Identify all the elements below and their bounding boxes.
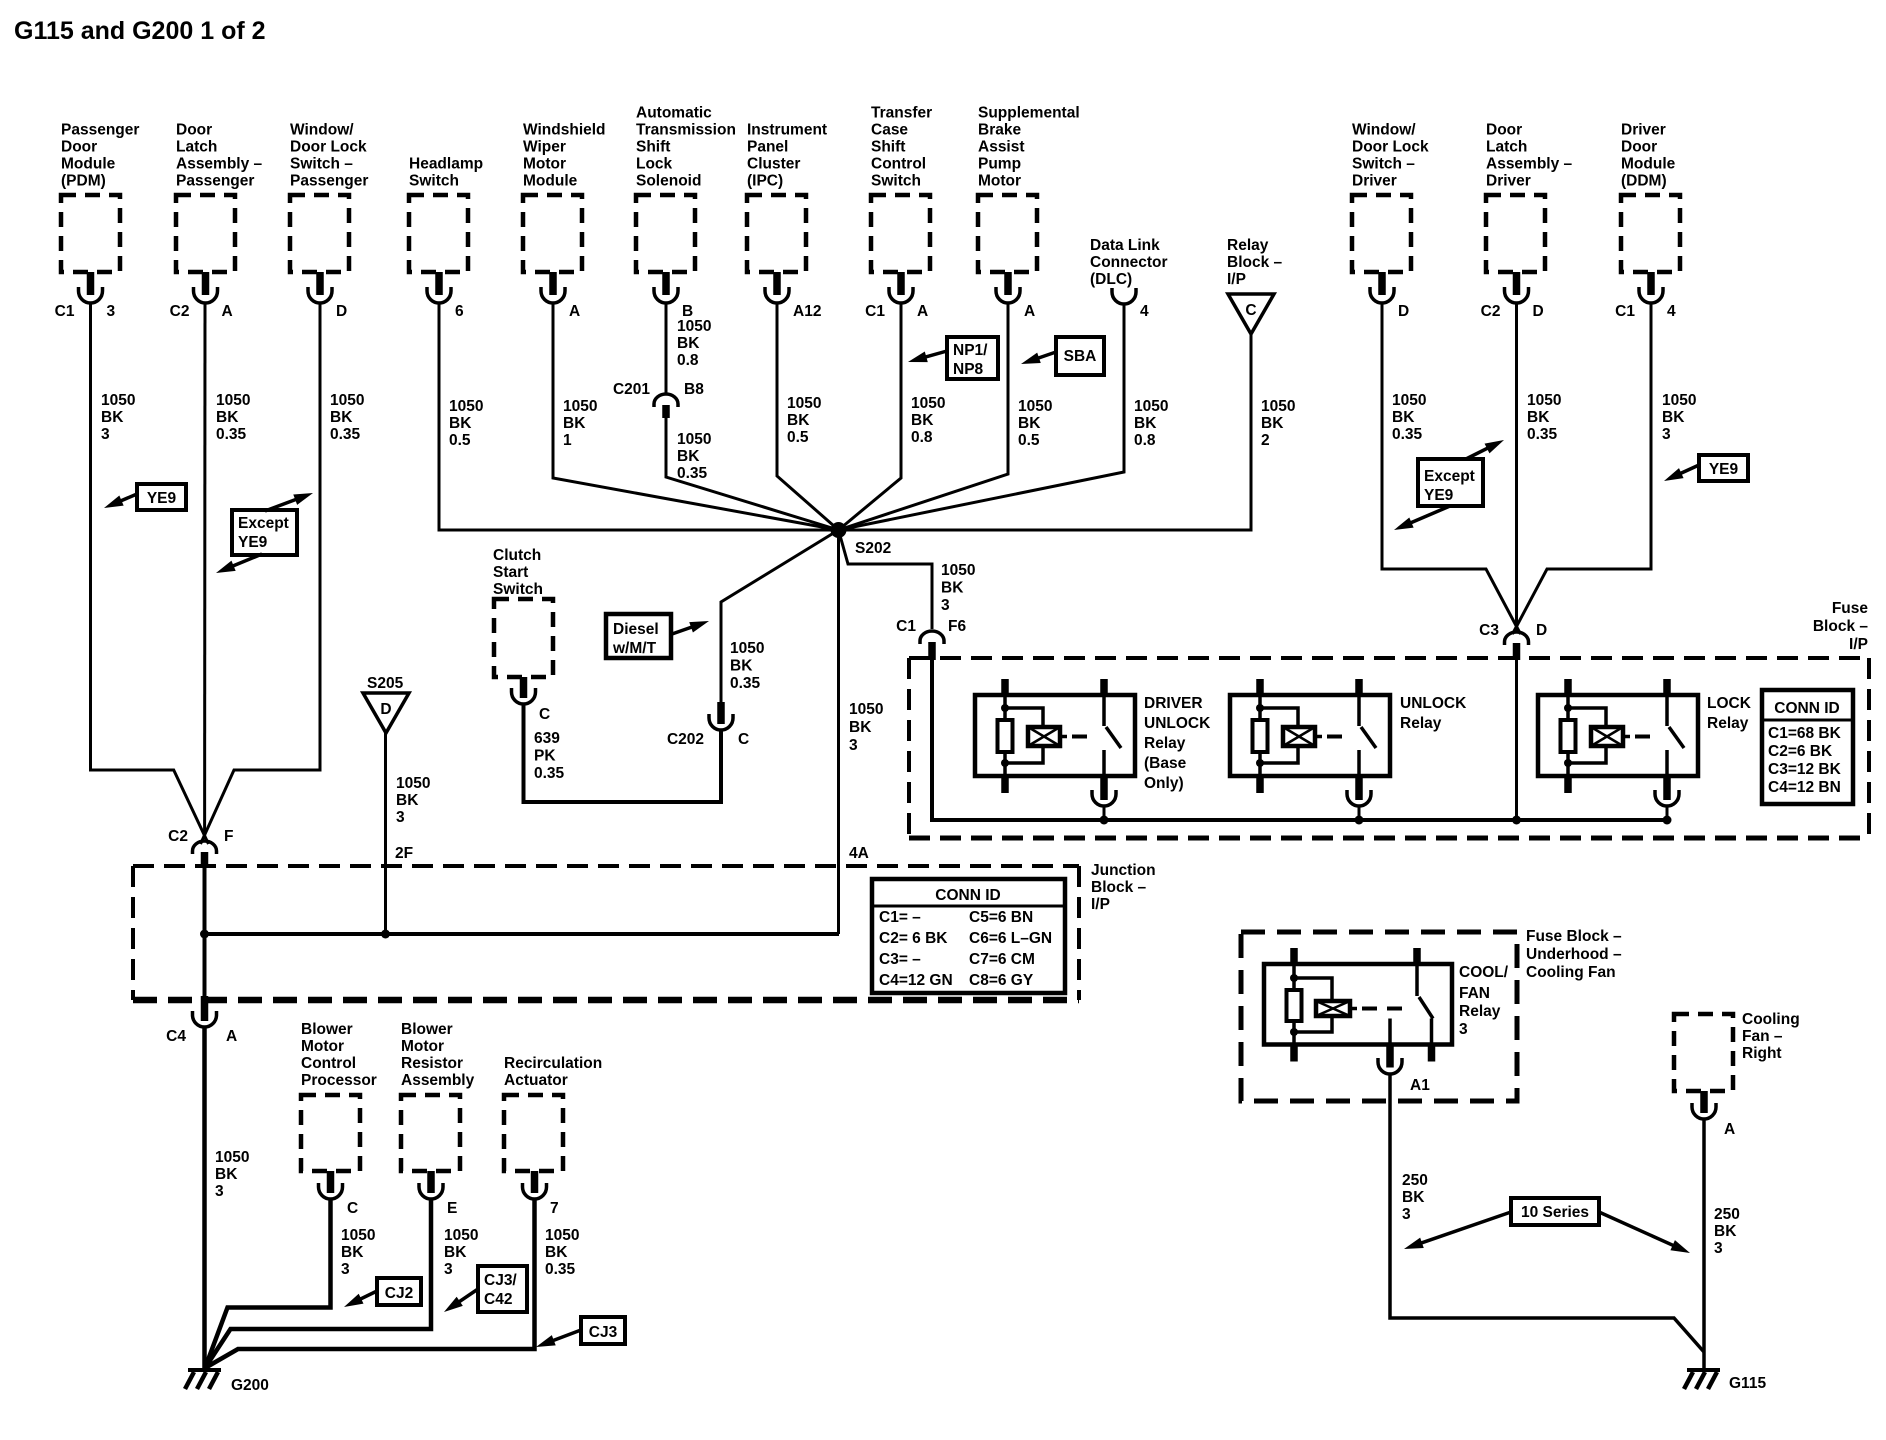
svg-text:Motor: Motor [978, 173, 1021, 190]
svg-text:10 Series: 10 Series [1521, 1204, 1589, 1221]
svg-text:BK: BK [216, 409, 239, 426]
svg-text:Automatic: Automatic [636, 105, 712, 122]
svg-text:C1: C1 [865, 303, 885, 320]
component Passenger Door Module (PDM) [55, 122, 140, 321]
label Junction Block - I/P [1091, 862, 1156, 913]
svg-text:C42: C42 [484, 1291, 512, 1308]
wire C202 to Clutch Start Switch pin C [524, 703, 722, 802]
wire C3/D to fuse block bus [1515, 660, 1518, 820]
svg-text:Driver: Driver [1621, 122, 1666, 139]
svg-text:(DDM): (DDM) [1621, 173, 1667, 190]
svg-text:Transmission: Transmission [636, 122, 736, 139]
svg-text:A12: A12 [793, 303, 821, 320]
svg-text:BK: BK [545, 1244, 568, 1261]
svg-text:Pump: Pump [978, 156, 1021, 173]
wire S202 to junction block (4A) [837, 537, 840, 934]
wire S202 to connector C202 [721, 530, 839, 704]
wire Blower Motor Control Processor pin C to ground G200 [205, 1199, 331, 1368]
svg-text:Blower: Blower [401, 1021, 453, 1038]
label Fuse Block - Underhood - Cooling Fan [1526, 928, 1622, 981]
svg-text:w/M/T: w/M/T [612, 640, 657, 657]
svg-text:SBA: SBA [1064, 348, 1097, 365]
svg-text:2: 2 [1261, 432, 1270, 449]
label YE9 with arrow to DDM wire [1662, 455, 1748, 486]
svg-text:BK: BK [341, 1244, 364, 1261]
svg-text:0.35: 0.35 [216, 426, 247, 443]
label 1050 BK 0.8 (solenoid wire) [677, 318, 711, 369]
svg-text:2F: 2F [395, 845, 413, 862]
svg-text:Passenger: Passenger [176, 173, 254, 190]
svg-text:1050: 1050 [444, 1227, 478, 1244]
svg-text:1050: 1050 [396, 775, 430, 792]
svg-text:Module: Module [61, 156, 116, 173]
svg-text:CJ3/: CJ3/ [484, 1272, 517, 1289]
svg-text:PK: PK [534, 748, 556, 765]
svg-text:C1=68 BK: C1=68 BK [1768, 725, 1842, 742]
wire DDM pin 4 to connector C3/D [1513, 303, 1652, 634]
svg-text:Door: Door [1486, 122, 1522, 139]
svg-text:1050: 1050 [677, 431, 711, 448]
label Diesel w/M/T with arrow [606, 614, 711, 658]
label SBA with arrow to supplemental brake wire [1019, 337, 1104, 375]
svg-text:I/P: I/P [1227, 271, 1246, 288]
svg-text:Relay: Relay [1227, 237, 1269, 254]
svg-text:Switch –: Switch – [1352, 156, 1415, 173]
splice connector S205 (triangle D) [363, 675, 409, 733]
wire Window/Door Lock Driver pin D to connector C3/D [1382, 303, 1521, 634]
svg-text:3: 3 [1459, 1021, 1468, 1038]
wire PDM pin 3 to connector C2/F [91, 303, 209, 844]
svg-text:3: 3 [849, 737, 858, 754]
svg-text:0.5: 0.5 [449, 432, 471, 449]
fuse block I/P dashed outline [909, 658, 1869, 838]
svg-text:BK: BK [677, 448, 700, 465]
wire Window/Door Lock Passenger pin D to connector C2/F [201, 303, 321, 844]
label 250 BK 3 (cooling fan wire) [1714, 1206, 1740, 1257]
svg-text:Block –: Block – [1227, 254, 1283, 271]
label 1050 BK 3 (blower resistor wire) [444, 1227, 478, 1278]
svg-text:Connector: Connector [1090, 254, 1168, 271]
svg-text:YE9: YE9 [1709, 461, 1739, 478]
svg-text:FAN: FAN [1459, 985, 1490, 1002]
svg-text:D: D [1398, 303, 1409, 320]
svg-text:Switch –: Switch – [290, 156, 353, 173]
wire Shift Lock Solenoid pin B to connector C201 [665, 303, 668, 394]
svg-text:Processor: Processor [301, 1072, 377, 1089]
svg-text:BK: BK [911, 412, 934, 429]
svg-text:C1: C1 [896, 618, 916, 635]
label 1050 BK 0.35 (below C201) [677, 431, 711, 482]
wire Door Latch Passenger pin A to connector C2/F [203, 303, 206, 838]
svg-text:Assembly: Assembly [401, 1072, 475, 1089]
svg-text:BK: BK [563, 415, 586, 432]
component Relay Block - I/P [1227, 237, 1283, 334]
svg-text:YE9: YE9 [147, 490, 177, 507]
svg-text:S205: S205 [367, 675, 404, 692]
svg-text:A: A [1724, 1121, 1735, 1138]
svg-text:A: A [226, 1028, 237, 1045]
relay UNLOCK [1230, 679, 1467, 825]
svg-text:BK: BK [1018, 415, 1041, 432]
svg-text:BK: BK [1662, 409, 1685, 426]
svg-text:Switch: Switch [493, 581, 543, 598]
svg-text:BK: BK [849, 719, 872, 736]
svg-text:0.35: 0.35 [534, 765, 565, 782]
svg-text:1050: 1050 [545, 1227, 579, 1244]
relay LOCK [1538, 679, 1752, 825]
svg-text:Window/: Window/ [290, 122, 354, 139]
svg-text:BK: BK [787, 412, 810, 429]
svg-text:CJ2: CJ2 [385, 1285, 413, 1302]
svg-text:Switch: Switch [871, 173, 921, 190]
svg-text:LOCK: LOCK [1707, 695, 1752, 712]
svg-text:BK: BK [101, 409, 124, 426]
svg-text:3: 3 [107, 303, 116, 320]
svg-text:1050: 1050 [911, 395, 945, 412]
svg-text:Door: Door [176, 122, 212, 139]
svg-text:C7=6 CM: C7=6 CM [969, 951, 1035, 968]
component Cooling Fan - Right [1674, 1011, 1800, 1138]
svg-text:BK: BK [396, 792, 419, 809]
svg-text:Window/: Window/ [1352, 122, 1416, 139]
svg-text:CONN ID: CONN ID [1774, 700, 1839, 717]
svg-text:250: 250 [1714, 1206, 1740, 1223]
svg-text:I/P: I/P [1849, 636, 1868, 653]
svg-text:UNLOCK: UNLOCK [1400, 695, 1467, 712]
svg-text:1050: 1050 [787, 395, 821, 412]
ground G115 [1684, 1370, 1766, 1392]
svg-text:Recirculation: Recirculation [504, 1055, 602, 1072]
svg-text:C1: C1 [55, 303, 75, 320]
wire DLC pin 4 to splice S202 [839, 305, 1125, 530]
svg-text:Passenger: Passenger [61, 122, 139, 139]
conn id table (junction block) [872, 879, 1065, 993]
label 1050 BK 1 (wiper wire) [563, 398, 597, 449]
svg-text:A: A [222, 303, 233, 320]
label 10 Series with arrows [1402, 1198, 1692, 1258]
svg-text:Assembly –: Assembly – [176, 156, 263, 173]
conn id table (fuse block) [1762, 690, 1853, 804]
label 1050 BK 0.35 (window/door lock driver wire) [1392, 392, 1426, 443]
component Automatic Transmission Shift Lock Solenoid [636, 105, 736, 321]
svg-text:1050: 1050 [1392, 392, 1426, 409]
label Except YE9 with arrows (driver side) [1392, 435, 1507, 535]
svg-text:A1: A1 [1410, 1077, 1430, 1094]
svg-text:Door Lock: Door Lock [1352, 139, 1429, 156]
label YE9 with arrow to PDM wire [102, 484, 186, 513]
label 1050 BK 3 (ground wire) [215, 1149, 249, 1200]
svg-text:Door: Door [1621, 139, 1657, 156]
svg-text:I/P: I/P [1091, 896, 1110, 913]
svg-text:Driver: Driver [1352, 173, 1397, 190]
svg-text:BK: BK [1714, 1223, 1737, 1240]
wire Blower Motor Resistor pin E to ground G200 [205, 1199, 431, 1368]
svg-text:Block –: Block – [1091, 879, 1147, 896]
svg-text:Passenger: Passenger [290, 173, 368, 190]
label 1050 BK 0.35 (recirculation wire) [545, 1227, 579, 1278]
svg-text:Actuator: Actuator [504, 1072, 568, 1089]
connector C201 / B8 [613, 381, 704, 418]
component Driver Door Module (DDM) [1615, 122, 1680, 321]
component Window/Door Lock Switch - Driver [1352, 122, 1429, 321]
svg-text:3: 3 [941, 597, 950, 614]
svg-text:(IPC): (IPC) [747, 173, 783, 190]
label 1050 BK 0.35 (door latch driver wire) [1527, 392, 1561, 443]
svg-text:C1= –: C1= – [879, 909, 921, 926]
svg-text:Cooling: Cooling [1742, 1011, 1800, 1028]
svg-text:6: 6 [455, 303, 464, 320]
svg-text:Data Link: Data Link [1090, 237, 1160, 254]
svg-text:DRIVER: DRIVER [1144, 695, 1203, 712]
svg-text:C: C [347, 1200, 358, 1217]
svg-text:Latch: Latch [176, 139, 217, 156]
svg-text:BK: BK [730, 658, 753, 675]
svg-text:Diesel: Diesel [613, 621, 659, 638]
svg-text:3: 3 [101, 426, 110, 443]
svg-text:0.35: 0.35 [330, 426, 361, 443]
wire Headlamp Switch pin 6 to splice S202 [439, 303, 839, 530]
svg-text:Except: Except [1424, 468, 1475, 485]
svg-text:G200: G200 [231, 1377, 269, 1394]
svg-text:Relay: Relay [1400, 715, 1442, 732]
svg-text:C2: C2 [1481, 303, 1501, 320]
label 1050 BK 3 (DDM wire) [1662, 392, 1696, 443]
svg-text:Control: Control [301, 1055, 356, 1072]
wire Relay Block I/P to splice S202 [839, 334, 1252, 530]
wire C201 B8 to splice S202 [666, 418, 839, 530]
junction block I/P dashed outline [133, 866, 1079, 1000]
svg-text:Motor: Motor [301, 1038, 344, 1055]
svg-text:C: C [738, 731, 749, 748]
node fuse bus / C3 wire [1512, 816, 1521, 825]
svg-text:1050: 1050 [1134, 398, 1168, 415]
svg-text:F6: F6 [948, 618, 966, 635]
svg-text:CONN ID: CONN ID [935, 887, 1000, 904]
svg-text:0.5: 0.5 [787, 429, 809, 446]
svg-text:639: 639 [534, 730, 560, 747]
svg-text:Assembly –: Assembly – [1486, 156, 1573, 173]
component Recirculation Actuator [504, 1055, 602, 1217]
svg-text:Clutch: Clutch [493, 547, 541, 564]
svg-text:Motor: Motor [401, 1038, 444, 1055]
svg-text:1050: 1050 [563, 398, 597, 415]
svg-text:1050: 1050 [215, 1149, 249, 1166]
svg-text:1: 1 [563, 432, 572, 449]
wire Supplemental Brake pin A to splice S202 [839, 303, 1009, 530]
component Blower Motor Resistor Assembly [401, 1021, 475, 1217]
svg-text:Motor: Motor [523, 156, 566, 173]
svg-text:BK: BK [1134, 415, 1157, 432]
label 1050 BK 0.35 (window/door lock passenger wire) [330, 392, 364, 443]
svg-text:BK: BK [449, 415, 472, 432]
svg-text:3: 3 [341, 1261, 350, 1278]
ground G200 [185, 1370, 269, 1394]
connector C3/D [1479, 622, 1547, 660]
svg-text:Assist: Assist [978, 139, 1025, 156]
svg-text:1050: 1050 [341, 1227, 375, 1244]
wire Windshield Wiper pin A to splice S202 [553, 303, 839, 530]
label 1050 BK 0.35 (door latch passenger wire) [216, 392, 250, 443]
svg-text:4: 4 [1667, 303, 1676, 320]
connector C2/F [168, 828, 233, 866]
svg-text:Module: Module [1621, 156, 1676, 173]
svg-text:Driver: Driver [1486, 173, 1531, 190]
svg-text:NP1/: NP1/ [953, 342, 988, 359]
svg-text:BK: BK [1261, 415, 1284, 432]
svg-text:3: 3 [1662, 426, 1671, 443]
label 1050 BK 3 (C1/F6 wire) [941, 562, 975, 614]
svg-text:(PDM): (PDM) [61, 173, 106, 190]
label 1050 BK 3 (4A wire) [849, 701, 883, 754]
label 639 PK 0.35 (clutch switch wire) [534, 730, 565, 782]
svg-text:NP8: NP8 [953, 361, 984, 378]
svg-text:Supplemental: Supplemental [978, 105, 1080, 122]
svg-text:Start: Start [493, 564, 528, 581]
svg-text:A: A [1024, 303, 1035, 320]
svg-text:1050: 1050 [330, 392, 364, 409]
label CJ3 with arrow [534, 1317, 625, 1352]
label 4A [849, 845, 869, 862]
label 1050 BK 0.5 (IPC wire) [787, 395, 821, 446]
label 1050 BK 0.5 (supplemental brake wire) [1018, 398, 1052, 449]
svg-text:Right: Right [1742, 1045, 1782, 1062]
splice S202 [831, 522, 892, 557]
svg-text:G115: G115 [1729, 1375, 1766, 1392]
fuse block underhood dashed outline [1241, 932, 1517, 1101]
svg-text:BK: BK [330, 409, 353, 426]
svg-text:C4=12 BN: C4=12 BN [1768, 779, 1841, 796]
svg-text:Fuse: Fuse [1832, 600, 1869, 617]
svg-text:Cooling Fan: Cooling Fan [1526, 964, 1616, 981]
svg-text:Block –: Block – [1813, 618, 1869, 635]
svg-text:YE9: YE9 [238, 534, 268, 551]
wire Cooling Fan pin A to ground G115 [1702, 1119, 1706, 1369]
wire C2/F through junction block to C4/A [203, 866, 207, 996]
label CJ3/C42 with arrow [441, 1266, 527, 1317]
label 1050 BK 3 (blower control wire) [341, 1227, 375, 1278]
svg-text:Cluster: Cluster [747, 156, 800, 173]
svg-text:3: 3 [1714, 1240, 1723, 1257]
label A1 [1410, 1077, 1430, 1094]
svg-text:250: 250 [1402, 1172, 1428, 1189]
svg-text:0.8: 0.8 [677, 352, 699, 369]
svg-text:Latch: Latch [1486, 139, 1527, 156]
svg-text:C2=6 BK: C2=6 BK [1768, 743, 1833, 760]
svg-text:Solenoid: Solenoid [636, 173, 701, 190]
svg-text:C2: C2 [168, 828, 188, 845]
svg-text:Resistor: Resistor [401, 1055, 463, 1072]
svg-text:C4: C4 [166, 1028, 186, 1045]
label 2F [395, 845, 413, 862]
svg-text:Wiper: Wiper [523, 139, 566, 156]
svg-text:D: D [1536, 622, 1547, 639]
svg-text:Shift: Shift [636, 139, 670, 156]
label 1050 BK 3 (PDM wire) [101, 392, 135, 443]
svg-text:Panel: Panel [747, 139, 788, 156]
svg-text:1050: 1050 [1527, 392, 1561, 409]
svg-text:BK: BK [941, 580, 964, 597]
component Window/Door Lock Switch - Passenger [290, 122, 368, 321]
svg-text:D: D [1533, 303, 1544, 320]
connector C4/A [166, 996, 237, 1045]
svg-text:C3= –: C3= – [879, 951, 921, 968]
svg-text:1050: 1050 [1018, 398, 1052, 415]
title G115 and G200 1 of 2 [14, 17, 266, 45]
wire S202 to connector C1/F6 [839, 530, 933, 629]
svg-text:YE9: YE9 [1424, 487, 1454, 504]
svg-text:Transfer: Transfer [871, 105, 932, 122]
svg-text:C3: C3 [1479, 622, 1499, 639]
svg-text:0.35: 0.35 [545, 1261, 576, 1278]
connector C1/F6 [896, 618, 966, 660]
component Door Latch Assembly - Passenger [170, 122, 263, 321]
svg-text:CJ3: CJ3 [589, 1324, 618, 1341]
svg-text:3: 3 [444, 1261, 453, 1278]
svg-text:Except: Except [238, 515, 289, 532]
svg-text:D: D [380, 701, 391, 718]
wire C4/A to ground G200 [202, 1027, 207, 1369]
component Supplemental Brake Assist Pump Motor [978, 105, 1080, 321]
svg-text:3: 3 [396, 809, 405, 826]
svg-text:Fuse Block –: Fuse Block – [1526, 928, 1622, 945]
wire S205 to junction block bus (2F) [384, 733, 387, 934]
svg-text:1050: 1050 [449, 398, 483, 415]
component Transfer Case Shift Control Switch [865, 105, 932, 321]
wire Transfer Case pin A to splice S202 [839, 303, 902, 530]
label 1050 BK 3 (S205 wire) [396, 775, 430, 826]
svg-text:Switch: Switch [409, 173, 459, 190]
connector C202 / C [667, 702, 749, 748]
svg-text:C4=12 GN: C4=12 GN [879, 972, 953, 989]
svg-text:Blower: Blower [301, 1021, 353, 1038]
component Door Latch Assembly - Driver [1481, 122, 1573, 321]
relay COOL/FAN Relay 3 [1264, 948, 1509, 1074]
svg-text:C5=6 BN: C5=6 BN [969, 909, 1033, 926]
svg-text:C6=6 L–GN: C6=6 L–GN [969, 930, 1052, 947]
svg-text:C1: C1 [1615, 303, 1635, 320]
junction block internal bus [205, 932, 840, 936]
svg-text:C8=6 GY: C8=6 GY [969, 972, 1034, 989]
svg-text:F: F [224, 828, 233, 845]
svg-text:7: 7 [550, 1200, 559, 1217]
component Headlamp Switch [409, 156, 483, 321]
svg-text:C: C [1245, 302, 1256, 319]
svg-text:Brake: Brake [978, 122, 1021, 139]
label 1050 BK 0.8 (transfer case wire) [911, 395, 945, 446]
svg-text:Case: Case [871, 122, 908, 139]
svg-text:1050: 1050 [216, 392, 250, 409]
label 1050 BK 0.35 (diesel wire) [730, 640, 764, 692]
svg-text:3: 3 [215, 1183, 224, 1200]
svg-text:C: C [539, 706, 550, 723]
svg-text:C201: C201 [613, 381, 650, 398]
svg-text:BK: BK [1527, 409, 1550, 426]
wire COOL/FAN relay A1 to ground G115 [1390, 1074, 1704, 1352]
svg-text:D: D [336, 303, 347, 320]
svg-text:E: E [447, 1200, 457, 1217]
wire Door Latch Driver pin D to connector C3/D [1515, 303, 1518, 632]
label Fuse Block - I/P (top right) [1813, 600, 1869, 653]
svg-text:S202: S202 [855, 540, 891, 557]
svg-text:BK: BK [677, 335, 700, 352]
svg-text:Shift: Shift [871, 139, 905, 156]
svg-text:BK: BK [444, 1244, 467, 1261]
label 1050 BK 0.8 (DLC wire) [1134, 398, 1168, 449]
node junction bus / 2F wire [381, 930, 390, 939]
svg-text:0.8: 0.8 [1134, 432, 1156, 449]
svg-text:Junction: Junction [1091, 862, 1156, 879]
svg-text:A: A [569, 303, 580, 320]
